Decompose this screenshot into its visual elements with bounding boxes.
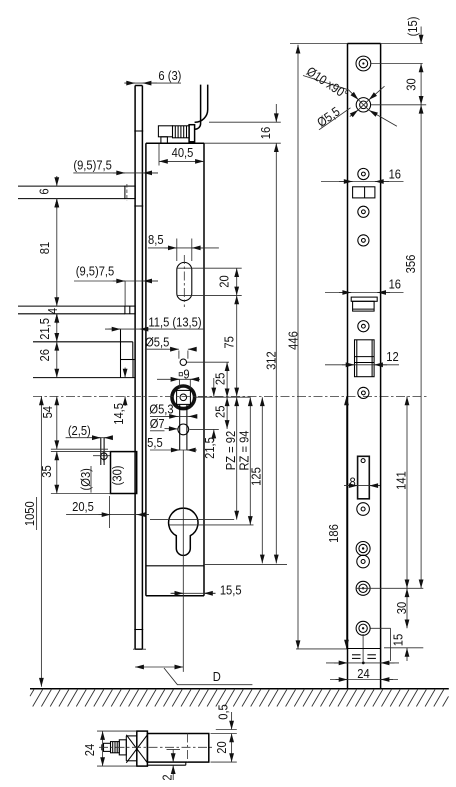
case lower reference line: [33, 377, 135, 379]
ground line: [30, 688, 449, 690]
leader line Ø10x90 underline: [303, 76, 349, 90]
detail flange: [137, 731, 148, 766]
label Ø5,3: [150, 415, 196, 417]
detail pin ribs: [111, 742, 120, 753]
svg-text:21,5: 21,5: [202, 437, 217, 459]
dim 6 latch thickness: [56, 176, 58, 186]
dim 20,5: [66, 514, 149, 516]
plate top extension lines: [290, 43, 348, 45]
bracket plate 2,5 lines: [100, 438, 102, 465]
svg-text:0,5: 0,5: [216, 704, 231, 720]
dim 186: [346, 396, 348, 648]
cylinder axis line: [182, 450, 184, 672]
dim D backset: [135, 666, 183, 668]
bottom extension line: [296, 648, 348, 650]
dim square 9: [179, 373, 182, 376]
svg-text:Ø10 x90°: Ø10 x90°: [304, 64, 351, 102]
svg-text:(2,5): (2,5): [68, 423, 91, 438]
slot 8,5 x 20 (stadium): [177, 262, 192, 300]
lock case outline: [145, 143, 147, 596]
bracket extension lines: [51, 448, 108, 450]
slot width extension lines: [176, 239, 178, 262]
svg-text:Ø7: Ø7: [150, 416, 165, 431]
follower center hole: [180, 394, 187, 401]
svg-text:20,5: 20,5: [72, 499, 94, 514]
latch bolt 2 projection lines: [18, 305, 125, 307]
dim 15 bottom: [406, 648, 408, 661]
auxiliary rod step: [33, 341, 133, 343]
dim 8: [344, 485, 380, 487]
dim (15): [420, 27, 422, 44]
svg-text:16: 16: [389, 277, 402, 292]
dim 21,5 nut to hole: [213, 378, 215, 396]
detail axis centerline: [99, 746, 213, 748]
svg-text:20: 20: [217, 275, 232, 288]
dim 6 (3) strip thickness: [124, 82, 181, 84]
svg-text:16: 16: [258, 127, 273, 140]
hole B cross lines: [358, 100, 369, 111]
leader line Ø5,5 underline: [319, 108, 351, 130]
cable connector body: [158, 126, 172, 137]
dim (9,5)7,5 upper: [73, 172, 158, 174]
dim 11,5 (13,5): [105, 328, 204, 330]
detail pin base: [119, 740, 126, 755]
dim 16 aux latch: [325, 292, 404, 294]
hole A (top): [356, 56, 371, 71]
svg-text:30: 30: [394, 602, 409, 615]
dim 21,5 left: [56, 314, 58, 342]
faceplate front view outline: [347, 44, 349, 689]
dim 20 detail: [231, 734, 233, 763]
label Ø7: [150, 430, 165, 432]
cable outer edge: [195, 85, 208, 123]
dim PZ = 92: [236, 397, 238, 519]
latch opening front: [353, 187, 375, 198]
dim 14,5: [124, 368, 126, 378]
dim 20 slot: [236, 268, 238, 295]
hole diam 5,5: [180, 359, 186, 365]
connector strain-relief ribs: [173, 126, 190, 138]
svg-text:(9,5)7,5: (9,5)7,5: [76, 264, 115, 279]
screw hole H: [357, 503, 370, 516]
main horizontal centerline (nut axis): [33, 395, 428, 397]
dim 24 plate width: [330, 679, 398, 681]
dim 26: [56, 342, 58, 378]
leader Ø5,5 arrows: [350, 110, 358, 117]
svg-text:40,5: 40,5: [172, 145, 194, 160]
hole diam 7: [178, 424, 189, 435]
dim 35: [56, 451, 58, 493]
slot extension lines: [177, 267, 242, 269]
svg-text:14,5: 14,5: [111, 403, 126, 425]
screw hole J: [357, 555, 370, 568]
svg-text:54: 54: [40, 406, 55, 419]
dim 16 connector height: [209, 121, 281, 123]
euro profile cylinder hole: [169, 508, 198, 555]
cylinder bottom extension line: [204, 564, 287, 566]
svg-text:2: 2: [160, 774, 175, 780]
svg-text:6: 6: [37, 188, 52, 194]
dim 446: [297, 45, 299, 650]
svg-text:Ø5,5: Ø5,5: [314, 104, 343, 130]
svg-text:26: 26: [37, 349, 52, 362]
svg-text:141: 141: [394, 471, 409, 490]
hole 5,5 extension lines: [178, 351, 180, 359]
dim 25 upper: [226, 362, 228, 397]
dim 4: [56, 314, 58, 324]
nut axis solid segment: [195, 396, 250, 398]
dim 1050: [40, 396, 42, 686]
cable inner edge: [195, 85, 201, 130]
dim 2: [167, 749, 181, 751]
svg-text:20: 20: [214, 741, 229, 754]
roller hole L (bottom): [356, 621, 370, 635]
dim 16 latch: [321, 181, 404, 183]
screw hole E: [358, 235, 369, 246]
follower square 9mm: [177, 390, 191, 404]
dim 25 lower: [226, 397, 228, 429]
latch bolt 1 projection lines: [18, 185, 125, 187]
dim 12: [325, 364, 399, 366]
leader Ø10x90 arrows: [349, 90, 359, 100]
latch bolt 2 block: [125, 306, 135, 314]
dim 15,5: [171, 592, 216, 594]
detail weld cross: [125, 736, 127, 761]
svg-text:312: 312: [264, 351, 279, 370]
roller hole K: [356, 581, 370, 595]
screw hole G: [358, 387, 369, 398]
svg-text:Ø5,5: Ø5,5: [145, 335, 169, 350]
svg-text:30: 30: [404, 78, 419, 91]
svg-text:24: 24: [82, 744, 97, 757]
dim 5,5: [150, 449, 197, 451]
dim 141: [406, 396, 408, 588]
dim 75: [236, 295, 238, 396]
PZ reference line: [150, 519, 234, 521]
bottom bracket block: [111, 452, 137, 494]
screw hole D: [358, 206, 369, 217]
svg-text:D: D: [213, 669, 221, 684]
dim 8,5: [148, 247, 219, 249]
latch 1 retracted dashed line: [126, 184, 128, 201]
svg-text:8: 8: [349, 475, 355, 490]
strip segment ticks: [134, 130, 143, 132]
dim 54: [56, 396, 58, 449]
svg-text:15: 15: [391, 634, 406, 647]
svg-text:16: 16: [389, 167, 402, 182]
dim 125: [261, 397, 263, 563]
RZ reference line: [169, 524, 253, 526]
svg-text:125: 125: [249, 467, 264, 486]
dim 0,5: [231, 712, 233, 730]
equal marks: [352, 654, 361, 656]
detail pin tip: [104, 743, 111, 751]
svg-text:446: 446: [286, 331, 301, 350]
dim (9,5)7,5 lower: [74, 280, 158, 282]
svg-text:Ø5,3: Ø5,3: [149, 402, 173, 417]
aux latch opening front: [351, 297, 377, 301]
dim (2,5): [66, 437, 112, 439]
svg-text:25: 25: [213, 405, 228, 418]
svg-text:1050: 1050: [22, 501, 37, 526]
svg-text:(30): (30): [110, 465, 125, 485]
svg-text:4: 4: [45, 308, 60, 314]
faceplate strip (edge view): [134, 86, 136, 650]
connector nub: [161, 137, 168, 143]
svg-text:11,5 (13,5): 11,5 (13,5): [148, 315, 201, 330]
svg-text:21,5: 21,5: [37, 318, 52, 340]
ground hatching: [30, 689, 449, 707]
dim 40,5: [159, 160, 204, 162]
dim RZ = 94: [249, 397, 251, 525]
slot 8 front: [358, 456, 370, 499]
svg-text:25: 25: [213, 372, 228, 385]
svg-text:RZ = 94: RZ = 94: [237, 430, 252, 470]
dim 312: [275, 143, 277, 563]
case internal bottom line: [146, 565, 204, 567]
hole B countersunk 10x90: [356, 98, 370, 112]
dim 30 bottom: [406, 588, 408, 628]
follower nut ring: [172, 386, 195, 409]
svg-text:81: 81: [37, 242, 52, 255]
hole diam 3: [101, 453, 108, 460]
detail section line: [187, 734, 189, 763]
channel 5,3 lines: [179, 405, 181, 450]
screw hole C: [358, 168, 369, 179]
svg-text:15,5: 15,5: [220, 583, 242, 598]
svg-text:356: 356: [403, 254, 418, 273]
plate bottom line: [348, 648, 381, 650]
detail roller body: [147, 734, 208, 763]
svg-text:186: 186: [326, 524, 341, 543]
dim 81: [56, 199, 58, 307]
roller hole I: [356, 542, 370, 556]
hook bolt opening: [355, 340, 375, 377]
latch bolt 1 block: [125, 186, 135, 199]
svg-text:24: 24: [357, 666, 370, 681]
svg-text:(15): (15): [405, 17, 420, 37]
centering dim line: [326, 662, 399, 664]
svg-text:8,5: 8,5: [148, 232, 164, 247]
dim 356: [420, 105, 422, 589]
detail body lip: [147, 764, 185, 766]
svg-text:75: 75: [222, 336, 237, 349]
label Ø5,5 left: [145, 348, 166, 350]
svg-text:12: 12: [386, 349, 399, 364]
dim 30 top: [420, 64, 422, 105]
connector flange: [189, 125, 195, 142]
screw hole F: [358, 321, 369, 332]
dim 24 detail: [102, 731, 104, 766]
svg-text:5,5: 5,5: [147, 435, 163, 450]
svg-text:6 (3): 6 (3): [158, 68, 181, 83]
svg-text:(9,5)7,5: (9,5)7,5: [73, 158, 112, 173]
slot centerline: [183, 255, 185, 307]
